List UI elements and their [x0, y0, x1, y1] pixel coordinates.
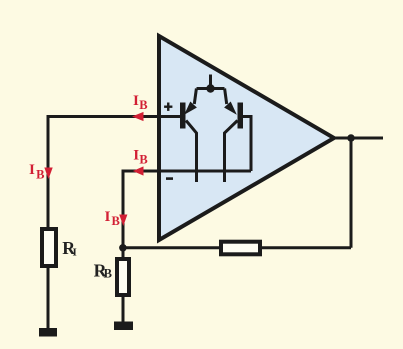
svg-text:I: I	[105, 208, 111, 225]
svg-text:B: B	[139, 152, 147, 166]
svg-text:I: I	[133, 146, 139, 163]
svg-text:I: I	[29, 161, 35, 178]
svg-text:B: B	[104, 267, 112, 281]
svg-text:B: B	[36, 167, 44, 181]
svg-text:B: B	[139, 98, 147, 112]
svg-text:I: I	[133, 92, 139, 109]
svg-text:B: B	[112, 214, 120, 228]
svg-text:I: I	[73, 247, 77, 259]
